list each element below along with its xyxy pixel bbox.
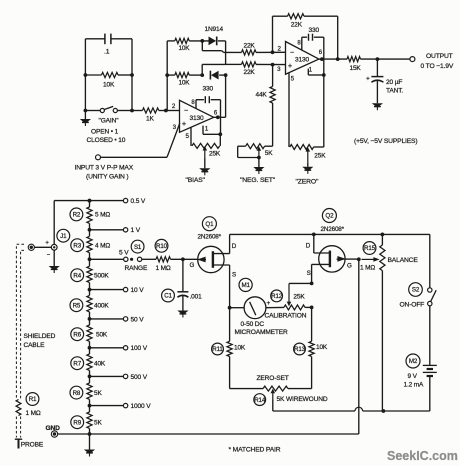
svg-text:.001: .001: [190, 293, 203, 300]
svg-text:M2: M2: [409, 358, 418, 365]
terminal OUTPUT: [410, 57, 415, 62]
svg-text:9 V: 9 V: [408, 373, 418, 380]
svg-text:1 MΩ: 1 MΩ: [26, 410, 41, 417]
pot R14 5K wirewound: [230, 386, 312, 411]
resistor 10K (D1 branch): [175, 38, 191, 52]
label 330 (U2): [309, 27, 320, 34]
svg-text:MICROAMMETER: MICROAMMETER: [235, 329, 289, 336]
label ON-OFF: [400, 301, 425, 308]
label R11 value: [234, 345, 246, 352]
ground (output cap): [372, 103, 383, 110]
svg-text:R14: R14: [254, 397, 266, 404]
label CLOSED = 10: [87, 137, 126, 144]
wire Q2 source: [307, 264, 314, 285]
label R1: [26, 393, 39, 406]
svg-text:S1: S1: [134, 244, 142, 251]
resistor R 1K: [132, 108, 168, 122]
label + (meter): [267, 300, 271, 307]
svg-text:50 V: 50 V: [131, 316, 145, 323]
label R14 value: [277, 396, 328, 403]
pot R12 25K CALIBRATION: [284, 283, 312, 310]
capacitor comp U1: [205, 96, 209, 103]
svg-text:R1: R1: [29, 396, 37, 403]
svg-text:R3: R3: [73, 242, 81, 249]
label R7: [71, 357, 84, 370]
svg-text:330: 330: [309, 27, 320, 34]
resistor 22K (to pin2 U2): [224, 42, 286, 55]
resistor 10K (gain): [102, 72, 119, 88]
terminal tap 500 V: [88, 374, 148, 381]
label GAIN: [99, 118, 120, 125]
svg-text:+: +: [288, 61, 292, 70]
terminal tap 100 V: [88, 345, 148, 352]
svg-text:5 MΩ: 5 MΩ: [95, 212, 110, 219]
label R4: [71, 269, 84, 282]
svg-text:CABLE: CABLE: [24, 342, 46, 349]
resistor R2 5 MΩ: [87, 207, 110, 223]
label C1 value: [190, 293, 203, 300]
diode D2 1N914: [189, 71, 227, 80]
svg-text:GND: GND: [46, 425, 61, 432]
svg-text:3130: 3130: [295, 57, 310, 64]
ground (divider bottom): [84, 432, 95, 456]
battery M2 9V: [423, 365, 437, 411]
label supplies: [354, 138, 417, 145]
switch S2: [428, 288, 437, 306]
svg-text:Q1: Q1: [205, 221, 214, 228]
label G (Q1): [190, 262, 195, 269]
svg-text:5K: 5K: [94, 419, 102, 426]
svg-text:400K: 400K: [94, 302, 109, 309]
probe tip: [15, 439, 22, 448]
svg-text:J1: J1: [60, 233, 67, 240]
svg-text:(UNITY GAIN ): (UNITY GAIN ): [86, 174, 129, 181]
label BIAS: [186, 177, 206, 184]
svg-text:4 MΩ: 4 MΩ: [95, 242, 110, 249]
wire Q2 gate: [345, 257, 361, 261]
wire U1 pin8 comp loop: [196, 100, 221, 118]
label R5: [70, 299, 83, 312]
svg-text:22K: 22K: [244, 42, 256, 49]
wire U2 pin1 box: [308, 59, 325, 77]
svg-text:SHIELDED: SHIELDED: [24, 333, 56, 340]
resistor R11 10K: [227, 308, 232, 389]
ground (NEG SET): [253, 158, 264, 175]
svg-text:10K: 10K: [234, 345, 246, 352]
label J1: [57, 229, 70, 242]
label 5 V: [119, 250, 129, 257]
terminal tap 0.5 V: [88, 198, 146, 205]
label CALIBRATION: [265, 312, 307, 319]
resistor R8 5K: [87, 383, 103, 399]
label Q2: [322, 209, 336, 223]
wire pin2 op-amp U1: [166, 110, 180, 112]
label R15: [363, 242, 376, 255]
svg-text:"BIAS": "BIAS": [186, 177, 206, 184]
svg-text:ZERO-SET: ZERO-SET: [257, 375, 289, 382]
wire S2 to battery: [429, 306, 431, 366]
label NEG SET: [240, 177, 276, 184]
svg-text:15K: 15K: [350, 65, 362, 72]
ground (gain): [80, 111, 91, 127]
svg-text:1 MΩ: 1 MΩ: [156, 265, 171, 272]
svg-text:CALIBRATION: CALIBRATION: [265, 312, 307, 319]
label M1: [239, 278, 252, 291]
svg-text:"GAIN": "GAIN": [99, 118, 120, 125]
diode D1 1N914: [189, 37, 225, 46]
wire gain-loop frame: [84, 39, 134, 113]
label RANGE: [125, 265, 148, 272]
svg-text:10K: 10K: [316, 344, 328, 351]
svg-text:TANT.: TANT.: [386, 88, 403, 95]
label R13: [294, 343, 306, 355]
label R13 value: [316, 344, 328, 351]
svg-text:M1: M1: [241, 282, 250, 289]
resistor 22K feedback U2: [273, 14, 340, 61]
label 0 TO -1.9V: [421, 63, 454, 70]
label 330 (U1): [203, 86, 214, 93]
svg-text:RANGE: RANGE: [125, 265, 148, 272]
svg-text:G: G: [190, 262, 195, 269]
svg-text:R10: R10: [156, 243, 168, 250]
svg-text:1.2 mA: 1.2 mA: [404, 382, 425, 389]
label R15 value: [360, 265, 375, 272]
svg-text:R8: R8: [73, 390, 81, 397]
svg-text:25K: 25K: [209, 150, 221, 157]
capacitor C1 .001: [177, 259, 188, 310]
svg-text:22K: 22K: [291, 22, 303, 29]
jack J1: [45, 241, 57, 259]
label R6: [71, 328, 84, 341]
svg-text:R9: R9: [73, 419, 81, 426]
svg-text:5K: 5K: [265, 150, 273, 157]
label PROBE: [21, 442, 44, 449]
resistor R3 4 MΩ: [87, 236, 110, 252]
label S1: [131, 240, 144, 253]
svg-text:SeekIC.com: SeekIC.com: [387, 449, 458, 463]
label R10 value: [156, 265, 171, 272]
terminal INPUT: [96, 123, 180, 160]
wire J1 to divider: [53, 201, 55, 245]
svg-text:1 V: 1 V: [131, 227, 141, 234]
label ZERO: [296, 179, 320, 186]
svg-text:R13: R13: [294, 346, 306, 353]
label G (Q2): [347, 262, 352, 269]
label C1: [162, 289, 175, 302]
label R10: [155, 239, 168, 252]
svg-text:20 µF: 20 µF: [386, 79, 402, 86]
pot 25K BIAS: [191, 127, 221, 158]
resistor R10 1M: [156, 257, 198, 262]
svg-text:1K: 1K: [146, 115, 155, 122]
svg-text:INPUT 3 V P-P MAX: INPUT 3 V P-P MAX: [75, 165, 134, 172]
resistor 15K: [347, 57, 410, 72]
label R12 value: [293, 293, 305, 300]
svg-text:D: D: [232, 243, 237, 250]
svg-text:BALANCE: BALANCE: [388, 257, 419, 264]
label MICROAMMETER: [235, 329, 289, 336]
wire U1 output node: [214, 115, 226, 119]
terminal tap 1 V: [88, 227, 141, 234]
svg-text:R5: R5: [73, 302, 81, 309]
shielded cable: [16, 244, 24, 437]
wire Q2 drain: [306, 234, 314, 253]
svg-text:+: +: [267, 300, 271, 307]
capacitor comp U2: [309, 34, 313, 41]
svg-text:R2: R2: [73, 212, 81, 219]
svg-text:25K: 25K: [314, 153, 326, 160]
svg-text:S2: S2: [412, 287, 420, 294]
wire Q1 source: [228, 265, 236, 310]
svg-text:(+5V, −5V SUPPLIES): (+5V, −5V SUPPLIES): [354, 138, 417, 145]
svg-text:1 MΩ: 1 MΩ: [360, 265, 375, 272]
wire D2 upper-loop: [202, 64, 225, 75]
label S2: [409, 283, 423, 297]
ground (ZERO): [302, 163, 313, 174]
capacitor .1: [104, 34, 115, 56]
wire Q1 drain: [230, 234, 237, 253]
wire U2 output: [319, 57, 347, 61]
ground (C1): [177, 311, 188, 318]
svg-text:R4: R4: [73, 272, 81, 279]
label R3: [71, 239, 84, 252]
svg-text:+: +: [366, 76, 370, 83]
svg-text:+: +: [182, 119, 186, 128]
meter M1: [230, 297, 284, 319]
resistor R6 50K: [87, 325, 108, 341]
wire battery return: [273, 407, 430, 411]
watermark SeekIC.com: [387, 449, 458, 463]
switch GAIN: [85, 106, 132, 112]
wire divider rail: [89, 201, 91, 434]
svg-text:R12: R12: [271, 293, 283, 300]
svg-text:C1: C1: [164, 293, 172, 300]
label R9: [71, 416, 84, 429]
wire ground bus: [58, 259, 359, 434]
svg-text:R7: R7: [73, 360, 81, 367]
label SHIELDED CABLE: [24, 333, 56, 349]
label R14: [254, 394, 266, 406]
connector (cable to J1): [28, 244, 51, 250]
wire D1 under-loop: [202, 41, 223, 53]
svg-text:1N914: 1N914: [205, 26, 224, 33]
label R1 value: [26, 410, 41, 417]
label OPEN = 1: [91, 129, 119, 136]
svg-text:5K: 5K: [94, 390, 102, 397]
resistor R4 500K: [87, 266, 109, 282]
label M2 value: [404, 373, 425, 388]
svg-text:"ZERO": "ZERO": [296, 179, 320, 186]
svg-text:G: G: [347, 262, 352, 269]
svg-text:500K: 500K: [94, 272, 109, 279]
label Q2 type: [321, 226, 345, 233]
svg-text:1000 V: 1000 V: [131, 403, 152, 410]
transistor Q1: [197, 246, 229, 272]
label ZERO-SET: [257, 375, 289, 382]
switch S1 RANGE: [124, 257, 156, 261]
svg-text:CLOSED • 10: CLOSED • 10: [87, 137, 126, 144]
resistor R13 10K: [309, 306, 314, 389]
pot R15 1M BALANCE: [362, 234, 386, 413]
svg-text:500 V: 500 V: [131, 374, 148, 381]
svg-text:PROBE: PROBE: [21, 442, 44, 449]
op-amp U2 3130: [277, 41, 323, 83]
svg-text:44K: 44K: [256, 91, 268, 98]
resistor 44K: [256, 65, 276, 147]
label OUTPUT: [426, 53, 453, 60]
svg-text:10K: 10K: [103, 82, 115, 89]
svg-text:.1: .1: [104, 49, 110, 56]
svg-text:OPEN • 1: OPEN • 1: [91, 129, 119, 136]
svg-text:OUTPUT: OUTPUT: [426, 53, 453, 60]
label Q1 type: [198, 233, 222, 240]
svg-text:2N2608*: 2N2608*: [321, 226, 345, 233]
svg-text:* MATCHED PAIR: * MATCHED PAIR: [229, 446, 281, 453]
ground (J1): [49, 250, 60, 273]
resistor R7 40K: [87, 354, 106, 370]
resistor 10K (D2 branch): [175, 73, 191, 87]
label Q1: [202, 217, 216, 231]
svg-text:0-50 DC: 0-50 DC: [241, 321, 265, 328]
wire U2 pin8 comp loop: [302, 37, 324, 59]
svg-text:S: S: [307, 270, 311, 277]
terminal tap 1000 V: [88, 403, 152, 410]
label INPUT 3V P-P MAX: [75, 165, 134, 172]
label R12: [271, 290, 283, 302]
svg-text:R11: R11: [212, 346, 223, 353]
transistor Q2: [312, 246, 346, 272]
pot 5K NEG SET: [238, 144, 274, 160]
wire divider rail top: [54, 199, 91, 203]
svg-text:D: D: [306, 242, 311, 249]
terminal tap 10 V: [88, 287, 145, 294]
resistor R1 1M: [16, 400, 21, 416]
svg-text:10 V: 10 V: [131, 287, 145, 294]
svg-text:3130: 3130: [189, 115, 204, 122]
label R2: [70, 208, 83, 221]
resistor 22K (to pin3 U2): [226, 62, 286, 76]
svg-text:Q2: Q2: [325, 213, 334, 220]
ground (BIAS): [199, 158, 210, 175]
svg-text:S: S: [232, 271, 236, 278]
svg-text:5 V: 5 V: [119, 250, 129, 257]
op-amp U1 3130: [172, 100, 218, 140]
label 1N914: [205, 26, 224, 33]
wire 5V tap: [88, 257, 124, 261]
svg-text:R15: R15: [364, 245, 376, 252]
svg-text:ON-OFF: ON-OFF: [400, 301, 425, 308]
pot 25K ZERO: [289, 73, 326, 163]
svg-text:40K: 40K: [94, 360, 106, 367]
resistor R5 400K: [87, 296, 109, 312]
svg-text:0.5 V: 0.5 V: [131, 198, 146, 205]
wire U1 pin1 box: [203, 117, 222, 136]
wire U1 output to diode net: [225, 75, 227, 117]
svg-text:22K: 22K: [244, 69, 256, 76]
label R11: [212, 343, 224, 355]
wire drain rail: [230, 233, 430, 237]
resistor R9 5K: [87, 412, 103, 428]
wire right rail top: [429, 234, 431, 287]
svg-text:"NEG. SET": "NEG. SET": [240, 177, 276, 184]
label BALANCE: [388, 257, 419, 264]
wire D1 cathode jog: [225, 41, 227, 65]
label R8: [70, 386, 83, 399]
svg-text:25K: 25K: [293, 293, 305, 300]
terminal GND: [46, 425, 61, 437]
terminal tap 50 V: [88, 316, 145, 323]
svg-text:50K: 50K: [96, 331, 108, 338]
svg-text:0 TO −1.9V: 0 TO −1.9V: [421, 63, 454, 70]
svg-text:330: 330: [203, 86, 214, 93]
svg-text:10K: 10K: [179, 45, 191, 52]
label M2: [406, 354, 420, 368]
svg-text:−: −: [290, 50, 294, 57]
capacitor 20uF TANT: [366, 59, 403, 103]
wire feedback rail U1: [165, 41, 175, 111]
label UNITY GAIN: [86, 174, 129, 181]
svg-text:5K WIREWOUND: 5K WIREWOUND: [277, 396, 328, 403]
label MATCHED PAIR: [229, 446, 281, 453]
svg-text:−: −: [184, 108, 188, 115]
label 0-50 DC: [241, 321, 265, 328]
svg-text:100 V: 100 V: [131, 345, 148, 352]
svg-text:2N2608*: 2N2608*: [198, 233, 222, 240]
svg-text:10K: 10K: [179, 80, 191, 87]
svg-text:R6: R6: [73, 331, 81, 338]
